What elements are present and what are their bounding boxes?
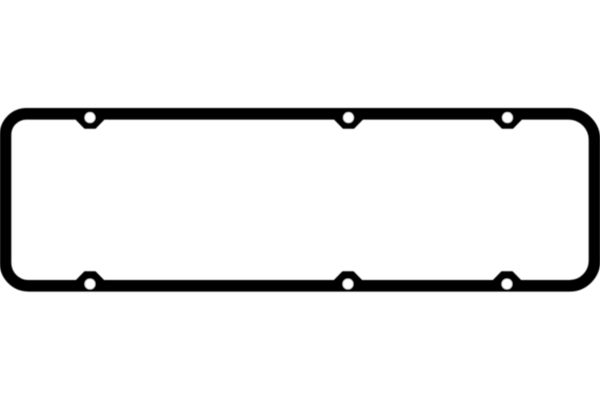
bolt hole top 3: [502, 112, 513, 123]
bolt hole bottom 2: [343, 279, 354, 290]
bolt ear top 1: [77, 112, 104, 128]
bolt hole top 2: [343, 112, 354, 123]
bolt hole bottom 1: [85, 279, 96, 290]
bolt ear top 3: [494, 112, 521, 128]
bolt ear bottom 2: [335, 272, 362, 287]
gasket outline (rounded rectangle): [6, 114, 595, 286]
bolt hole top 1: [85, 112, 96, 123]
bolt ear top 2: [335, 112, 362, 128]
bolt ear bottom 3: [494, 272, 521, 287]
bolt hole bottom 3: [502, 279, 513, 290]
bolt ear bottom 1: [77, 272, 104, 287]
